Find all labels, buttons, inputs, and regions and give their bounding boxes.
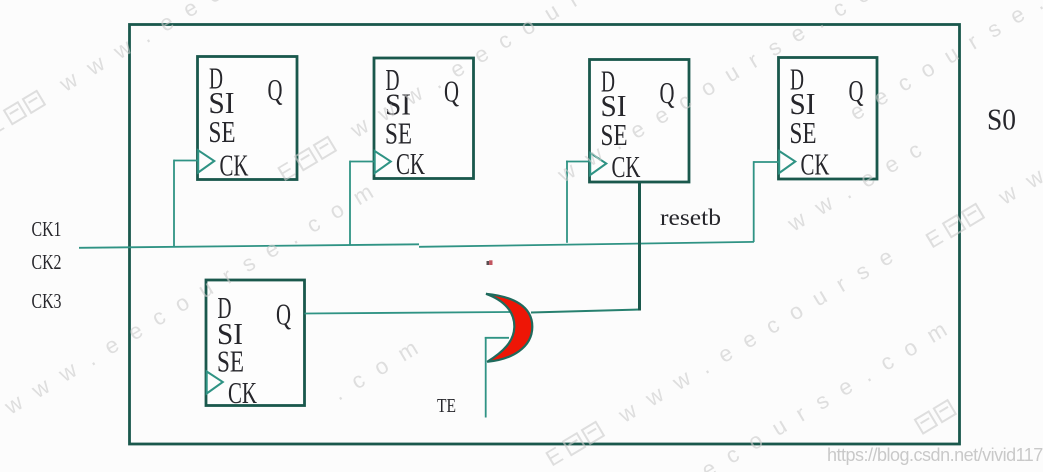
flip-flop U5 bbox=[206, 280, 305, 410]
svg-text:CK: CK bbox=[228, 375, 257, 410]
svg-text:S0: S0 bbox=[987, 102, 1016, 137]
svg-text:Q: Q bbox=[268, 72, 283, 107]
stray red mark bbox=[487, 260, 493, 265]
svg-text:CK: CK bbox=[396, 146, 425, 181]
wire clock riser U2 bbox=[349, 161, 351, 245]
svg-text:Q: Q bbox=[276, 297, 291, 332]
flip-flop U2 bbox=[374, 58, 474, 181]
OR gate G1 (crescent) bbox=[486, 294, 532, 362]
svg-text:CK2: CK2 bbox=[32, 250, 62, 274]
watermark strips (decorative) bbox=[0, 0, 437, 141]
svg-text:CK: CK bbox=[801, 147, 830, 182]
flip-flop U3 bbox=[590, 60, 690, 185]
wire clock stub U2 bbox=[350, 161, 374, 163]
svg-text:SE: SE bbox=[790, 115, 817, 150]
enclosing module box bbox=[130, 25, 960, 445]
wire clock stub U1 bbox=[174, 160, 198, 162]
svg-text:resetb: resetb bbox=[660, 205, 721, 230]
wire clock riser U1 bbox=[173, 160, 175, 248]
svg-text:CK1: CK1 bbox=[32, 217, 62, 241]
wire clock stub U3 bbox=[566, 161, 590, 163]
wire TE horizontal bbox=[485, 337, 509, 339]
wire CK1 trunk bbox=[79, 244, 419, 248]
svg-text:SE: SE bbox=[209, 114, 236, 149]
svg-text:CK: CK bbox=[220, 148, 249, 183]
flip-flop U4 bbox=[779, 58, 878, 182]
wire OR gate output bbox=[531, 310, 641, 313]
wire clock riser U3 bbox=[566, 161, 568, 243]
wire clock riser U4 bbox=[753, 161, 755, 242]
wire TE vertical bbox=[485, 337, 487, 418]
wire U5 Q output bbox=[305, 312, 511, 314]
flip-flop U1 bbox=[198, 57, 298, 183]
svg-text:SE: SE bbox=[217, 344, 244, 379]
svg-text:TE: TE bbox=[437, 395, 456, 417]
wire resetb vertical bbox=[638, 183, 641, 311]
wire CK2 trunk bbox=[419, 242, 754, 247]
wire clock stub U4 bbox=[754, 161, 779, 163]
csdn url watermark (decorative) bbox=[827, 445, 1043, 466]
svg-text:CK3: CK3 bbox=[32, 289, 62, 313]
